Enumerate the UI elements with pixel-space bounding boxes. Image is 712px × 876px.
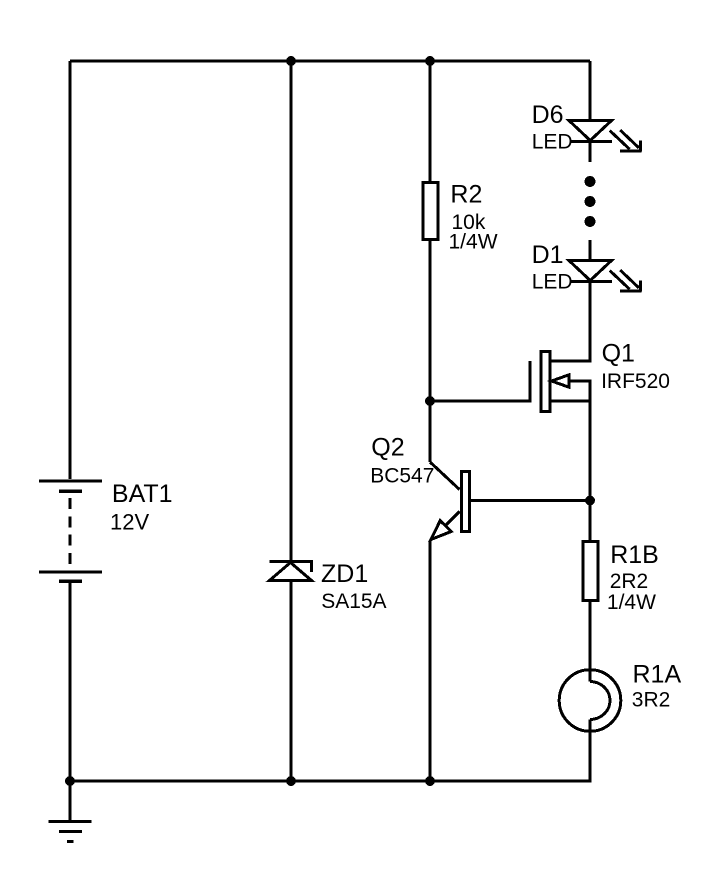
junction top rail / R2 <box>425 56 435 66</box>
svg-text:BAT1: BAT1 <box>112 480 173 508</box>
svg-text:Q1: Q1 <box>602 339 635 367</box>
LED D6 <box>569 121 641 152</box>
svg-text:1/4W: 1/4W <box>607 591 656 614</box>
wire battery to bottom rail <box>69 583 72 781</box>
svg-text:D6: D6 <box>532 101 564 129</box>
svg-text:D1: D1 <box>532 241 564 269</box>
junction top rail / zener <box>286 56 296 66</box>
resistor R1A <box>559 670 621 732</box>
wire left vertical to battery <box>69 61 72 479</box>
wire Q1 source to base node <box>589 401 592 540</box>
battery BAT1 <box>39 481 102 581</box>
wire R1A to bottom rail <box>589 720 592 783</box>
transistor Q2 collector wire <box>430 462 460 490</box>
svg-text:2R2: 2R2 <box>610 570 649 593</box>
svg-text:R2: R2 <box>450 181 482 209</box>
svg-text:12V: 12V <box>110 509 149 534</box>
resistor R1B <box>583 542 598 601</box>
junction bottom rail / zener <box>286 776 296 786</box>
MOSFET Q1 <box>530 352 591 412</box>
wire zener branch top <box>290 61 293 561</box>
resistor R2 <box>423 183 438 240</box>
wire top rail <box>70 60 590 63</box>
ground <box>49 781 92 842</box>
svg-text:LED: LED <box>532 271 573 294</box>
svg-text:3R2: 3R2 <box>632 688 671 711</box>
svg-text:LED: LED <box>532 131 573 154</box>
junction gate node <box>425 396 435 406</box>
wire bottom rail <box>70 780 591 783</box>
junction bottom rail / Q2 emitter <box>425 776 435 786</box>
wire R2 to gate node <box>429 241 432 462</box>
svg-text:IRF520: IRF520 <box>601 370 670 393</box>
wire top rail to R2 <box>429 61 432 181</box>
svg-text:ZD1: ZD1 <box>321 560 368 588</box>
wire above D1 <box>589 240 592 261</box>
wire gate node to MOSFET gate <box>430 400 530 403</box>
wire Q2 base <box>471 499 590 502</box>
svg-text:R1A: R1A <box>633 660 682 688</box>
junction bottom rail / ground <box>65 776 75 786</box>
svg-text:BC547: BC547 <box>370 464 434 487</box>
svg-text:R1B: R1B <box>610 541 659 569</box>
svg-text:Q2: Q2 <box>371 433 404 461</box>
LED D1 <box>569 261 641 292</box>
wire D1 cathode to Q1 drain <box>589 282 592 363</box>
wire D6 cathode <box>589 142 592 163</box>
wire R1B to R1A <box>589 602 592 682</box>
zener diode ZD1 <box>270 562 312 581</box>
ellipsis dots LED string <box>585 176 596 227</box>
junction Q2 base / source node <box>585 496 595 506</box>
wire Q2 emitter to bottom rail <box>429 541 432 782</box>
svg-text:1/4W: 1/4W <box>449 231 498 254</box>
wire zener branch bottom <box>290 581 293 781</box>
transistor Q2 <box>431 472 470 540</box>
svg-text:SA15A: SA15A <box>321 590 386 613</box>
wire right branch top <box>589 61 592 121</box>
